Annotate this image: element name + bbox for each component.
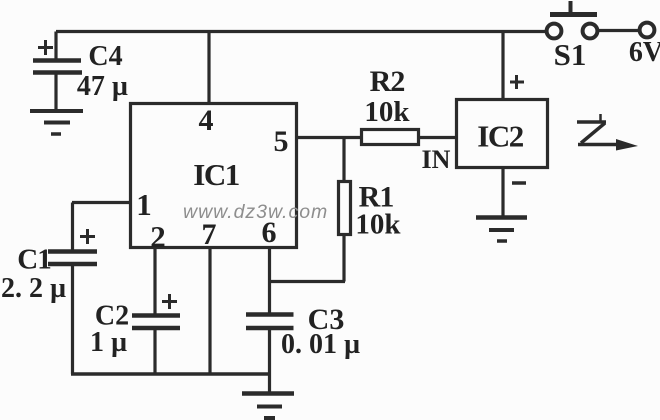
svg-text:R2: R2 [370, 65, 405, 98]
svg-text:C1: C1 [17, 244, 50, 276]
svg-text:5: 5 [274, 125, 289, 158]
svg-text:10k: 10k [355, 209, 401, 241]
svg-text:IC2: IC2 [477, 119, 523, 154]
svg-text:IC1: IC1 [193, 157, 238, 192]
svg-text:0. 01 µ: 0. 01 µ [281, 329, 360, 360]
svg-text:6V: 6V [629, 37, 660, 68]
svg-text:4: 4 [199, 104, 214, 137]
svg-text:IN: IN [422, 145, 451, 174]
svg-text:47 µ: 47 µ [77, 71, 128, 102]
svg-text:www.dz3w.com: www.dz3w.com [183, 201, 328, 223]
svg-text:C4: C4 [88, 41, 122, 72]
svg-text:2. 2 µ: 2. 2 µ [1, 273, 66, 304]
svg-text:1: 1 [136, 187, 152, 222]
svg-text:1 µ: 1 µ [90, 327, 127, 358]
svg-text:2: 2 [150, 219, 166, 254]
svg-text:S1: S1 [554, 37, 587, 72]
svg-text:10k: 10k [364, 96, 410, 128]
